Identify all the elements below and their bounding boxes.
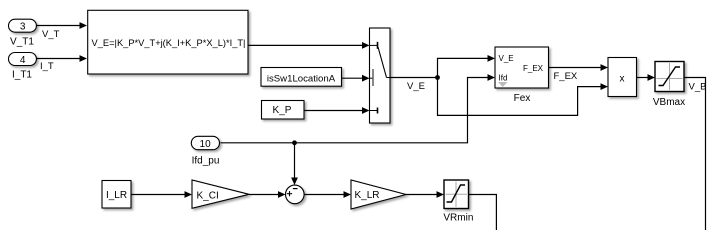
svg-text:isSw1LocationA: isSw1LocationA [267, 73, 336, 84]
wire V_B output [684, 78, 706, 231]
svg-text:K_CI: K_CI [197, 191, 219, 202]
wire formula to switch [248, 42, 370, 49]
svg-text:V_E=|K_P*V_T+j(K_I+K_P*X_L)*I_: V_E=|K_P*V_T+j(K_I+K_P*X_L)*I_T| [92, 38, 246, 48]
svg-text:3: 3 [20, 22, 26, 33]
svg-text:K_LR: K_LR [355, 190, 380, 201]
wire junction to Fex V_E input [438, 55, 496, 78]
svg-text:F_EX: F_EX [523, 64, 544, 73]
block K_P [262, 101, 305, 120]
product block x [608, 58, 637, 97]
switch block [370, 28, 391, 123]
wire product to VBmax [637, 74, 655, 81]
block isSw1LocationA [261, 68, 342, 87]
wire K_CI to sum [249, 191, 286, 198]
inport 10 Ifd_pu [191, 136, 219, 166]
svg-text:Ifd: Ifd [499, 74, 508, 83]
svg-text:Fex: Fex [514, 93, 531, 104]
svg-text:V_E: V_E [499, 54, 514, 63]
svg-text:Ifd_pu: Ifd_pu [192, 156, 220, 167]
wire sum to K_LR [304, 191, 351, 198]
svg-text:I_T: I_T [40, 61, 54, 72]
svg-text:V_B: V_B [689, 81, 707, 92]
svg-text:K_P: K_P [273, 105, 292, 116]
saturation block VRmin [443, 180, 473, 223]
svg-text:4: 4 [20, 55, 26, 66]
wire isSw1LocationA to switch [342, 75, 370, 82]
svg-text:VRmin: VRmin [443, 212, 473, 223]
wire I_T [36, 55, 87, 72]
svg-text:x: x [620, 74, 625, 85]
svg-text:V_E: V_E [407, 81, 425, 92]
svg-text:V_T: V_T [42, 29, 60, 40]
svg-text:F_EX: F_EX [554, 71, 578, 82]
wire V_T [36, 22, 87, 40]
inport 3 V_T1 [9, 19, 37, 47]
junction Ifd_pu [292, 140, 297, 145]
wire Ifd_pu to Fex Ifd input [221, 74, 496, 143]
wire VRmin output [469, 195, 497, 231]
subsystem Fex [495, 47, 549, 104]
wire I_LR to K_CI [131, 191, 192, 198]
block I_LR [102, 181, 131, 209]
wire junction to sum top input [291, 143, 298, 185]
wire V_E from switch [390, 78, 438, 93]
wire K_LR to VRmin [406, 191, 444, 198]
svg-text:10: 10 [200, 139, 212, 150]
sum block [286, 185, 305, 204]
saturation block VBmax [653, 62, 685, 108]
inport 4 I_T1 [9, 53, 37, 81]
wire junction down to product input 2 [438, 78, 609, 116]
wire K_P to switch [304, 107, 370, 114]
svg-text:VBmax: VBmax [653, 97, 685, 108]
svg-text:I_LR: I_LR [106, 190, 127, 201]
gain K_CI [192, 180, 249, 208]
svg-text:V_T1: V_T1 [10, 37, 34, 48]
svg-text:I_T1: I_T1 [12, 70, 32, 81]
junction V_E [435, 75, 440, 80]
wire F_EX [549, 64, 609, 82]
gain K_LR [351, 180, 406, 209]
block V_E formula [88, 10, 248, 74]
